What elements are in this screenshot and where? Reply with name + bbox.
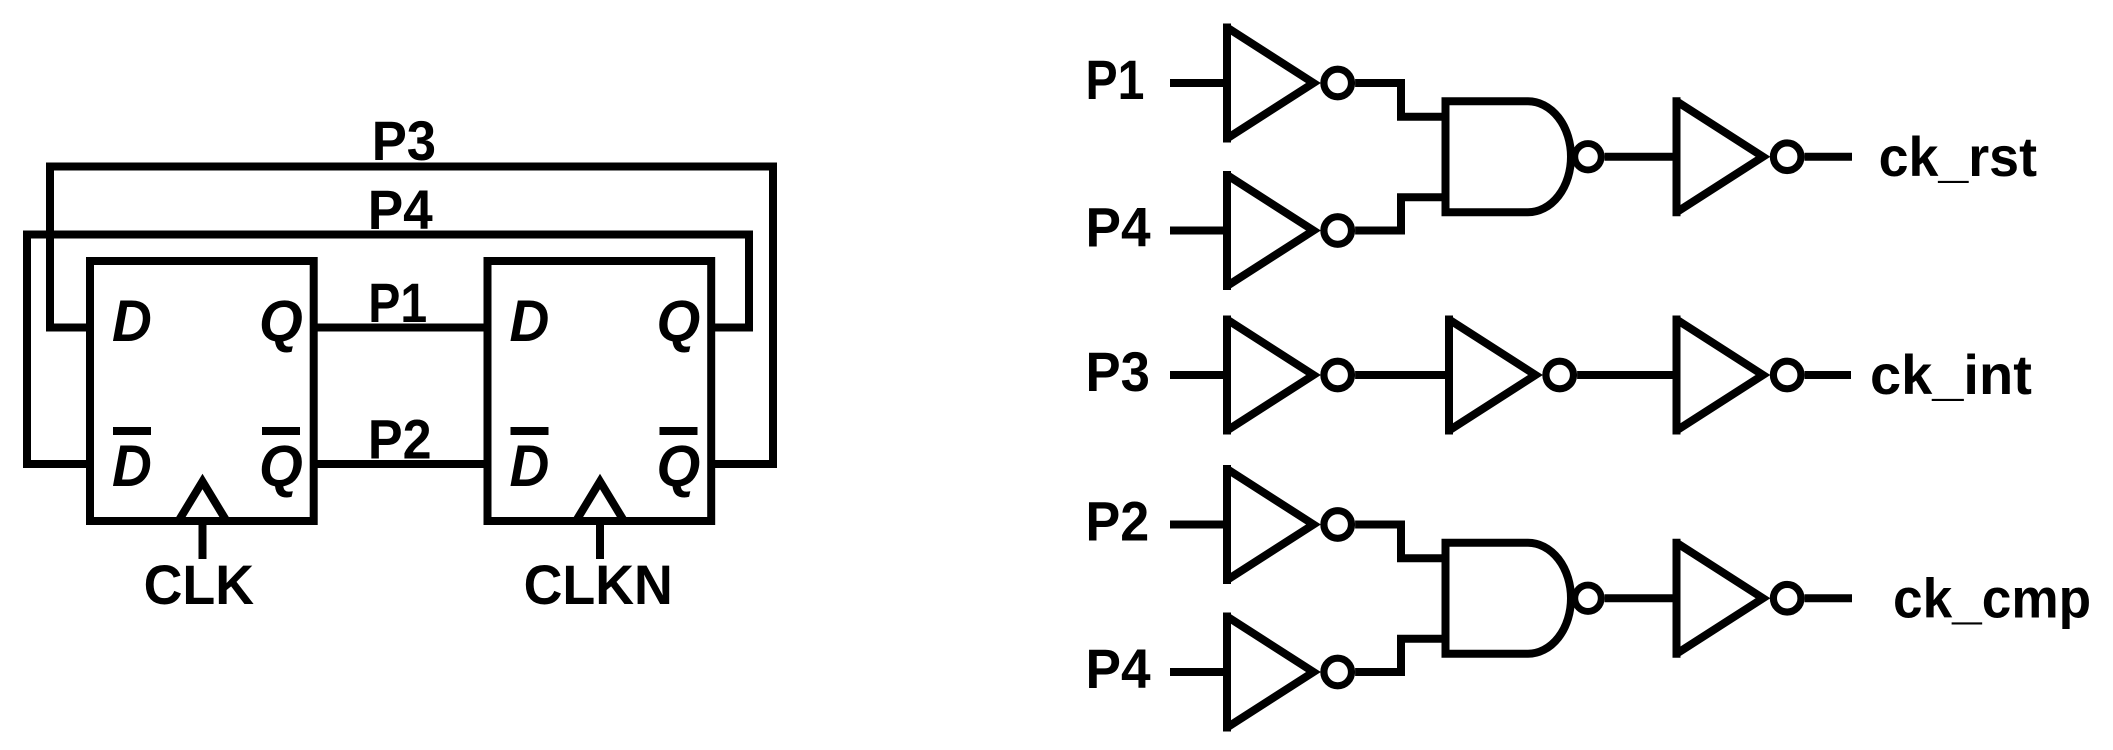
svg-text:ck_cmp: ck_cmp — [1893, 567, 2091, 630]
svg-text:P1: P1 — [368, 273, 427, 335]
inverter X8 output bubble — [1324, 658, 1352, 686]
svg-text:P3: P3 — [1086, 341, 1150, 404]
wire inverter X8 output to NAND gate G2 input B — [1355, 639, 1445, 672]
wire CLK stub — [199, 521, 207, 559]
wire inverter X7 output to NAND gate G2 input A — [1355, 525, 1445, 559]
NAND gate G2 body — [1446, 543, 1572, 654]
inverter X8 triangle — [1227, 617, 1314, 728]
NAND gate G2 output bubble — [1575, 585, 1601, 611]
inverter X4 output bubble — [1324, 361, 1352, 389]
U2 pin label Dbar — [510, 431, 550, 498]
svg-text:P4: P4 — [368, 179, 434, 242]
wire P2 (U1.Qbar to U2.Dbar) — [314, 460, 488, 468]
inverter X2 output bubble — [1324, 217, 1352, 245]
inverter X3 output bubble — [1773, 143, 1801, 171]
svg-text:CLKN: CLKN — [524, 553, 673, 616]
wire net ck_int output — [1805, 371, 1851, 379]
wire X5 output to X6 — [1577, 371, 1676, 379]
inverter X6 triangle — [1677, 320, 1764, 431]
wire P2 input — [1170, 521, 1227, 529]
inverter X4 triangle — [1227, 320, 1314, 431]
wire P3 input — [1170, 371, 1227, 379]
inverter X7 triangle — [1227, 469, 1314, 580]
svg-text:ck_int: ck_int — [1870, 343, 2032, 406]
svg-text:P2: P2 — [368, 409, 432, 471]
svg-text:P1: P1 — [1086, 50, 1145, 112]
wire inverter X2 output to NAND gate G1 input B — [1355, 197, 1445, 230]
svg-text:D: D — [510, 289, 550, 354]
svg-text:CLK: CLK — [144, 553, 255, 616]
wire NAND gate G2 output to inverter X9 — [1605, 594, 1677, 602]
inverter X3 triangle — [1677, 101, 1764, 212]
inverter X9 triangle — [1677, 543, 1764, 654]
inverter X1 triangle — [1227, 28, 1314, 139]
wire P4 input — [1170, 668, 1227, 676]
svg-text:Q: Q — [259, 434, 303, 499]
inverter X5 output bubble — [1546, 361, 1574, 389]
inverter X9 output bubble — [1773, 584, 1801, 612]
inverter X5 triangle — [1449, 320, 1536, 431]
U1 pin label Dbar — [112, 431, 152, 498]
svg-text:ck_rst: ck_rst — [1879, 125, 2037, 188]
svg-text:D: D — [112, 289, 152, 354]
U2 pin label Qbar — [657, 431, 701, 499]
U1 pin label Qbar — [259, 431, 303, 499]
svg-text:Q: Q — [657, 289, 701, 354]
wire X4 output to X5 — [1355, 371, 1449, 379]
wire P4 input — [1170, 227, 1227, 235]
svg-text:P2: P2 — [1086, 491, 1150, 553]
flip-flop U1 body — [90, 261, 314, 521]
wire P1 input — [1170, 79, 1227, 87]
inverter X6 output bubble — [1773, 361, 1801, 389]
wire P4 (U2.Q feedback to U1.Dbar) — [27, 235, 749, 465]
svg-text:D: D — [510, 434, 550, 499]
svg-text:P4: P4 — [1086, 638, 1152, 701]
NAND gate G1 output bubble — [1575, 144, 1601, 170]
U1 clock edge triangle — [179, 482, 227, 522]
inverter X7 output bubble — [1324, 511, 1352, 539]
wire net ck_rst output — [1805, 153, 1852, 161]
svg-text:P4: P4 — [1086, 196, 1152, 259]
svg-text:Q: Q — [259, 289, 303, 354]
svg-text:D: D — [112, 434, 152, 499]
flip-flop U2 body — [488, 261, 712, 521]
wire P3 (U2.Qbar feedback to U1.D) — [50, 167, 773, 465]
svg-text:P3: P3 — [372, 110, 436, 173]
wire inverter X1 output to NAND gate G1 input A — [1355, 83, 1445, 117]
inverter X1 output bubble — [1324, 69, 1352, 97]
inverter X2 triangle — [1227, 175, 1314, 286]
wire net ck_cmp output — [1805, 594, 1852, 602]
wire P1 (U1.Q to U2.D) — [314, 324, 488, 332]
svg-text:Q: Q — [657, 434, 701, 499]
NAND gate G1 body — [1446, 101, 1572, 212]
U2 clock edge triangle — [576, 482, 624, 522]
wire CLKN stub — [596, 521, 604, 559]
wire NAND gate G1 output to inverter X3 — [1605, 153, 1677, 161]
